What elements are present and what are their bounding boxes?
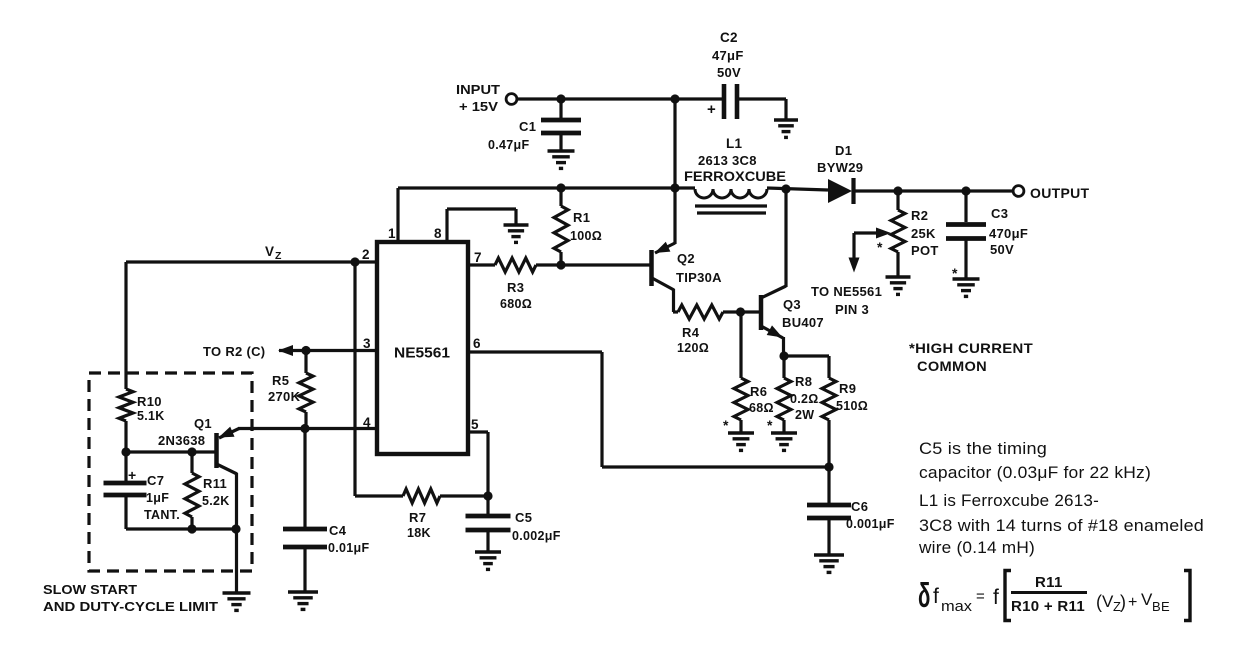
- svg-text:C5 is the timing: C5 is the timing: [919, 439, 1047, 458]
- svg-text:6: 6: [473, 336, 481, 351]
- svg-text:R5: R5: [272, 373, 289, 388]
- svg-text:*: *: [877, 239, 883, 255]
- svg-text:): ): [1120, 592, 1126, 612]
- svg-text:5: 5: [471, 417, 479, 432]
- svg-text:max: max: [941, 599, 973, 615]
- svg-text:f: f: [933, 585, 939, 608]
- svg-text:capacitor (0.03μF for 22 kHz): capacitor (0.03μF for 22 kHz): [919, 463, 1151, 482]
- svg-text:1: 1: [388, 226, 396, 241]
- svg-text:BYW29: BYW29: [817, 160, 863, 175]
- svg-text:PIN 3: PIN 3: [835, 302, 869, 317]
- svg-text:680Ω: 680Ω: [500, 297, 532, 311]
- svg-text:*: *: [723, 417, 729, 433]
- svg-text:50V: 50V: [990, 242, 1014, 257]
- svg-text:=: =: [976, 588, 985, 605]
- svg-text:68Ω: 68Ω: [749, 401, 774, 415]
- svg-text:50V: 50V: [717, 65, 741, 80]
- svg-text:TANT.: TANT.: [144, 508, 180, 522]
- svg-text:V: V: [265, 244, 274, 259]
- svg-text:f: f: [993, 586, 999, 609]
- svg-text:3C8 with 14 turns of #18 ename: 3C8 with 14 turns of #18 enameled: [919, 516, 1204, 535]
- svg-text:0.2Ω: 0.2Ω: [790, 392, 819, 406]
- svg-text:R11: R11: [1035, 574, 1063, 591]
- svg-text:+: +: [707, 101, 716, 118]
- svg-text:OUTPUT: OUTPUT: [1030, 185, 1090, 201]
- svg-text:25K: 25K: [911, 226, 936, 241]
- svg-text:R7: R7: [409, 510, 426, 525]
- svg-text:R3: R3: [507, 280, 524, 295]
- svg-text:2N3638: 2N3638: [158, 433, 205, 448]
- svg-text:2W: 2W: [795, 408, 814, 422]
- svg-text:R2: R2: [911, 208, 928, 223]
- svg-text:510Ω: 510Ω: [836, 399, 868, 413]
- svg-text:Q3: Q3: [783, 297, 801, 312]
- svg-text:2613 3C8: 2613 3C8: [698, 153, 757, 168]
- svg-text:5.2K: 5.2K: [202, 494, 230, 508]
- svg-text:R9: R9: [839, 381, 856, 396]
- svg-text:3: 3: [363, 336, 371, 351]
- svg-text:C4: C4: [329, 523, 347, 538]
- svg-text:TIP30A: TIP30A: [676, 270, 722, 285]
- svg-text:TO R2 (C): TO R2 (C): [203, 344, 265, 359]
- svg-text:+: +: [1128, 594, 1138, 611]
- svg-text:+ 15V: + 15V: [459, 99, 498, 114]
- svg-text:C6: C6: [851, 499, 868, 514]
- svg-text:BE: BE: [1152, 599, 1170, 614]
- svg-text:120Ω: 120Ω: [677, 341, 709, 355]
- svg-text:47μF: 47μF: [712, 48, 744, 63]
- svg-text:COMMON: COMMON: [917, 358, 987, 374]
- svg-text:wire (0.14 mH): wire (0.14 mH): [918, 538, 1035, 557]
- svg-text:0.01μF: 0.01μF: [328, 541, 369, 555]
- svg-text:C3: C3: [991, 206, 1008, 221]
- svg-text:INPUT: INPUT: [456, 82, 500, 97]
- svg-text:0.002μF: 0.002μF: [512, 529, 561, 543]
- svg-text:SLOW START: SLOW START: [43, 582, 137, 597]
- svg-text:C2: C2: [720, 30, 738, 45]
- svg-text:*: *: [952, 265, 958, 281]
- svg-text:L1 is Ferroxcube 2613-: L1 is Ferroxcube 2613-: [919, 491, 1099, 510]
- svg-text:C1: C1: [519, 119, 536, 134]
- svg-text:R1: R1: [573, 210, 590, 225]
- svg-text:FERROXCUBE: FERROXCUBE: [684, 169, 786, 184]
- svg-text:δ: δ: [918, 577, 930, 615]
- svg-text:R8: R8: [795, 374, 812, 389]
- svg-text:NE5561: NE5561: [394, 345, 450, 362]
- svg-text:R11: R11: [203, 476, 227, 491]
- svg-text:R6: R6: [750, 384, 767, 399]
- svg-text:2: 2: [362, 247, 370, 262]
- svg-text:*HIGH CURRENT: *HIGH CURRENT: [909, 340, 1033, 356]
- svg-text:BU407: BU407: [782, 315, 824, 330]
- svg-text:R10: R10: [137, 394, 162, 409]
- svg-text:0.001μF: 0.001μF: [846, 517, 895, 531]
- svg-text:D1: D1: [835, 143, 852, 158]
- svg-text:270K: 270K: [268, 389, 301, 404]
- svg-text:AND DUTY-CYCLE LIMIT: AND DUTY-CYCLE LIMIT: [43, 599, 218, 614]
- svg-text:POT: POT: [911, 243, 939, 258]
- svg-text:100Ω: 100Ω: [570, 229, 602, 243]
- svg-text:L1: L1: [726, 136, 743, 151]
- svg-text:Q2: Q2: [677, 251, 695, 266]
- svg-text:Z: Z: [275, 250, 282, 262]
- svg-text:C5: C5: [515, 510, 532, 525]
- svg-text:7: 7: [474, 250, 482, 265]
- svg-text:TO NE5561: TO NE5561: [811, 284, 882, 299]
- svg-text:R10 + R11: R10 + R11: [1011, 598, 1085, 615]
- svg-text:8: 8: [434, 226, 442, 241]
- svg-text:Q1: Q1: [194, 416, 212, 431]
- svg-text:R4: R4: [682, 325, 700, 340]
- svg-text:0.47μF: 0.47μF: [488, 138, 529, 152]
- svg-text:*: *: [767, 417, 773, 433]
- svg-text:+: +: [128, 467, 136, 483]
- svg-text:18K: 18K: [407, 526, 431, 540]
- svg-text:C7: C7: [147, 473, 164, 488]
- svg-text:470μF: 470μF: [989, 226, 1028, 241]
- svg-text:5.1K: 5.1K: [137, 409, 165, 423]
- svg-text:1μF: 1μF: [146, 491, 169, 505]
